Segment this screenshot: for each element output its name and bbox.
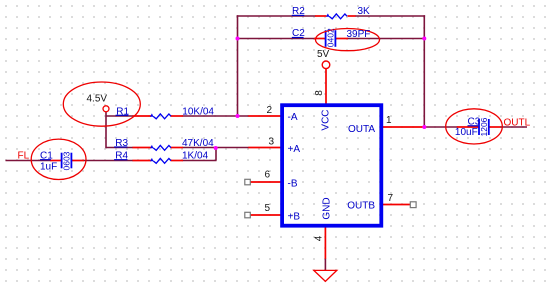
svg-text:5V: 5V (317, 49, 330, 60)
svg-text:10K/04: 10K/04 (182, 106, 214, 117)
svg-text:VCC: VCC (320, 109, 331, 130)
svg-text:0603: 0603 (62, 151, 72, 170)
svg-text:0402: 0402 (325, 28, 335, 47)
svg-text:OUTL: OUTL (504, 118, 531, 129)
svg-text:4: 4 (313, 235, 324, 241)
svg-text:6: 6 (265, 170, 271, 181)
svg-text:1: 1 (386, 115, 392, 126)
svg-text:47K/04: 47K/04 (182, 138, 214, 149)
svg-text:3: 3 (269, 136, 275, 147)
svg-text:4.5V: 4.5V (87, 93, 108, 104)
svg-text:2: 2 (267, 105, 273, 116)
svg-text:1206: 1206 (479, 117, 489, 136)
svg-text:FL: FL (18, 150, 30, 161)
svg-text:10uF: 10uF (455, 127, 478, 138)
svg-text:7: 7 (388, 193, 394, 204)
svg-text:OUTB: OUTB (347, 201, 375, 212)
svg-text:1K/04: 1K/04 (182, 151, 209, 162)
svg-text:+B: +B (288, 211, 301, 222)
svg-text:1uF: 1uF (40, 161, 57, 172)
svg-text:OUTA: OUTA (348, 124, 375, 135)
svg-text:8: 8 (314, 90, 325, 96)
svg-text:GND: GND (321, 197, 332, 219)
svg-text:-B: -B (288, 178, 298, 189)
svg-text:+A: +A (288, 144, 301, 155)
svg-text:39PF: 39PF (347, 29, 371, 40)
svg-text:3K: 3K (358, 6, 371, 17)
svg-text:-A: -A (288, 112, 298, 123)
svg-text:5: 5 (265, 203, 271, 214)
